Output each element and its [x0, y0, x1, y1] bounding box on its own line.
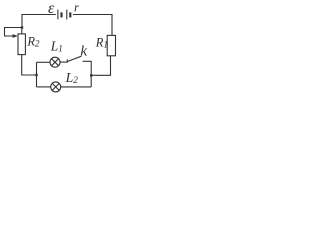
wire right branch vertical	[90, 61, 92, 87]
wire switch to right rail	[83, 60, 92, 62]
svg-text:k: k	[80, 44, 87, 60]
rheostat R2 box	[18, 34, 25, 55]
svg-text:R2: R2	[26, 35, 40, 49]
lamp L2 cross	[52, 83, 59, 90]
lamp L1 cross	[52, 59, 59, 66]
rheostat arrow head	[13, 34, 18, 38]
wire rheostat wiper loop	[5, 28, 23, 37]
wire L2 branch left	[37, 86, 51, 88]
battery cell 2 short thick plate	[69, 12, 71, 17]
svg-text:L1: L1	[50, 38, 63, 53]
switch k lever	[67, 56, 81, 61]
svg-text:L2: L2	[65, 70, 79, 85]
wire L2 branch right	[61, 86, 91, 88]
switch k pivot contact	[66, 59, 68, 62]
wire top rail left (battery left lead)	[22, 15, 56, 28]
wire left branch to lamp L1	[37, 61, 51, 63]
wire left branch vertical	[36, 62, 38, 87]
wire R2 bottom to left junction	[22, 55, 37, 75]
node left junction	[35, 74, 37, 76]
wire R1 bottom leg	[91, 56, 110, 76]
battery cell 1 short thick plate	[60, 12, 62, 17]
node right junction	[90, 74, 92, 76]
node R2 top junction	[21, 26, 23, 28]
battery cell 1 long plate	[57, 10, 59, 20]
svg-text:r: r	[74, 1, 79, 15]
wire top rail right (battery right lead to right rail)	[73, 15, 112, 36]
lamp L1 circle	[50, 57, 60, 67]
wire R2 top leg	[21, 28, 23, 34]
svg-text:ε: ε	[48, 0, 55, 17]
lamp L2 circle	[51, 82, 61, 92]
resistor R1 box	[107, 35, 115, 55]
battery cell 2 long plate	[66, 10, 68, 20]
svg-text:R1: R1	[95, 36, 108, 50]
wire lamp L1 to switch	[60, 61, 67, 63]
